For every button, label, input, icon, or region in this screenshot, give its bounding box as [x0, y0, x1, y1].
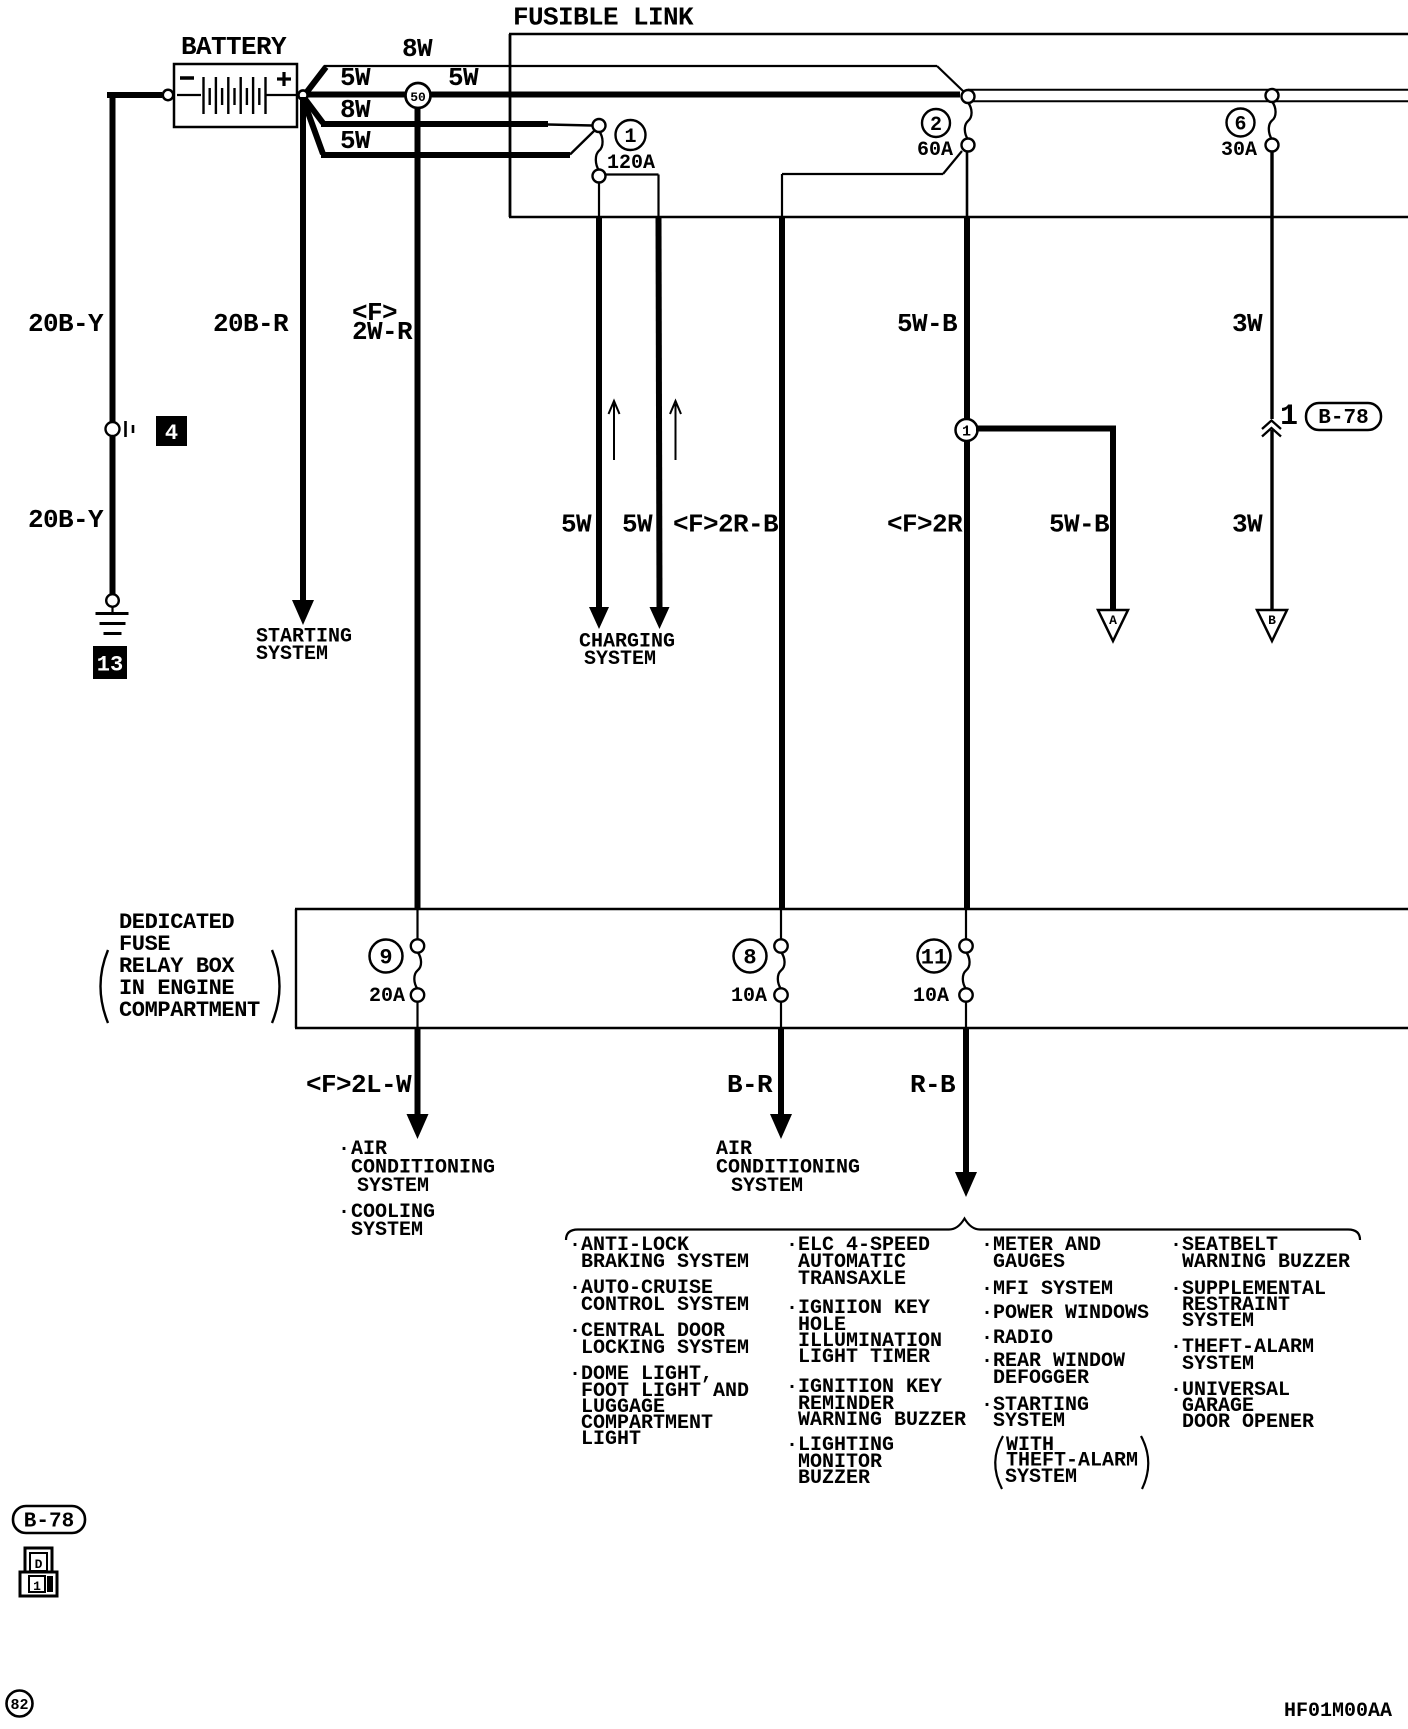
svg-text:5W-B: 5W-B	[897, 309, 958, 339]
page connector chevrons	[1262, 421, 1281, 437]
ground box 13	[93, 646, 127, 679]
svg-text:1: 1	[962, 424, 971, 441]
svg-text:FUSIBLE LINK: FUSIBLE LINK	[513, 3, 694, 33]
svg-text:30A: 30A	[1221, 139, 1257, 162]
fusible link 6 top terminal	[1266, 89, 1279, 102]
svg-text:·: ·	[786, 1297, 798, 1320]
svg-text:·: ·	[981, 1278, 993, 1301]
svg-text:LIGHT TIMER: LIGHT TIMER	[798, 1346, 930, 1369]
svg-text:4: 4	[165, 421, 178, 446]
label 8W	[340, 95, 371, 125]
ground terminal circle	[106, 594, 119, 607]
svg-text:HF01M00AA: HF01M00AA	[1284, 1700, 1392, 1723]
svg-text:<F>2L-W: <F>2L-W	[306, 1070, 412, 1100]
battery minus terminal	[180, 76, 194, 80]
svg-text:8W: 8W	[402, 34, 433, 64]
svg-text:CONTROL SYSTEM: CONTROL SYSTEM	[581, 1294, 749, 1317]
label 20B-Y lower	[28, 505, 104, 535]
svg-text:·: ·	[338, 1138, 350, 1161]
fuse 11 leads	[965, 910, 967, 1028]
fusible link 6 designator	[1227, 109, 1255, 137]
label F 2R	[887, 510, 963, 540]
svg-text:20A: 20A	[369, 985, 405, 1008]
fusible link bus lines	[968, 90, 1408, 102]
svg-text:DEFOGGER: DEFOGGER	[993, 1367, 1089, 1390]
fusible link 2 bottom terminal	[962, 139, 975, 152]
svg-text:·: ·	[786, 1234, 798, 1257]
label 20A of fuse 9	[369, 985, 405, 1008]
svg-text:5W-B: 5W-B	[1049, 510, 1110, 540]
fusible link 1 top terminal	[593, 119, 606, 132]
fusible link 2 bottom lead left	[782, 151, 962, 217]
wire R-B to systems	[963, 1028, 969, 1174]
label 5W	[340, 126, 371, 156]
svg-text:SYSTEM: SYSTEM	[1182, 1310, 1254, 1333]
label R-B	[910, 1070, 956, 1100]
svg-text:SYSTEM: SYSTEM	[256, 643, 328, 666]
current arrow up right	[670, 401, 681, 460]
fuse 8 top terminal	[774, 939, 787, 952]
svg-text:·: ·	[981, 1327, 993, 1350]
fuse 9 top terminal	[411, 939, 424, 952]
label 120A	[607, 152, 655, 175]
svg-text:82: 82	[10, 1697, 28, 1714]
label 5W-B upper	[897, 309, 958, 339]
svg-text:COMPARTMENT: COMPARTMENT	[119, 998, 260, 1023]
label 5W charging left	[561, 510, 592, 540]
svg-text:BUZZER: BUZZER	[798, 1467, 870, 1490]
svg-text:RADIO: RADIO	[993, 1327, 1053, 1350]
wire 5W-B branch to A	[976, 429, 1116, 610]
fuse 8 designator	[734, 940, 767, 973]
svg-text:·: ·	[1170, 1379, 1182, 1402]
page number 82	[7, 1691, 33, 1717]
wire F 2L-W to air conditioning	[415, 1028, 421, 1116]
svg-text:2W-R: 2W-R	[352, 317, 413, 347]
wire battery negative to ground	[107, 92, 162, 595]
wire 2W-R down from connector 50	[415, 107, 421, 910]
svg-text:20B-Y: 20B-Y	[28, 505, 104, 535]
fuse 8 bottom terminal	[774, 988, 787, 1001]
svg-text:A: A	[1109, 613, 1117, 628]
svg-text:D: D	[35, 1557, 43, 1572]
connector pictogram D-1	[20, 1548, 57, 1596]
svg-text:3W: 3W	[1232, 309, 1263, 339]
battery BT1 cells	[177, 77, 296, 114]
fuse 8 leads	[780, 910, 782, 1028]
fuse 9 leads	[416, 910, 418, 1028]
reference B-78 top	[1306, 403, 1381, 430]
wire 5W charging right	[659, 217, 660, 607]
svg-text:·: ·	[786, 1434, 798, 1457]
svg-text:BATTERY: BATTERY	[181, 32, 287, 62]
label starting system	[256, 626, 352, 667]
fuse 9 designator	[370, 940, 403, 973]
connector triangle A	[1098, 610, 1128, 641]
dedicated fuse relay box outline	[295, 909, 1408, 1028]
svg-text:1: 1	[624, 126, 636, 149]
fuse 11 top terminal	[959, 939, 972, 952]
wire 20B-R starting system	[300, 97, 306, 600]
svg-text:·: ·	[569, 1277, 581, 1300]
label 20B-Y upper	[28, 309, 104, 339]
svg-text:50: 50	[410, 90, 426, 105]
label 20B-R	[213, 309, 289, 339]
label 3W lower	[1232, 510, 1263, 540]
battery BT1 box	[174, 64, 297, 127]
svg-text:R-B: R-B	[910, 1070, 956, 1100]
svg-text:SYSTEM: SYSTEM	[357, 1175, 429, 1198]
system list column 3	[981, 1234, 1149, 1433]
connector triangle B	[1257, 610, 1287, 641]
svg-text:SYSTEM: SYSTEM	[1005, 1466, 1077, 1489]
svg-text:DOOR OPENER: DOOR OPENER	[1182, 1411, 1314, 1434]
connector 1 on wire	[956, 419, 978, 441]
svg-text:·: ·	[981, 1302, 993, 1325]
svg-text:POWER WINDOWS: POWER WINDOWS	[993, 1302, 1149, 1325]
battery negative terminal circle	[163, 90, 173, 100]
svg-text:·: ·	[569, 1320, 581, 1343]
dedicated fuse relay box label	[101, 910, 280, 1023]
connector 50 on battery feed	[406, 83, 431, 108]
svg-text:GAUGES: GAUGES	[993, 1251, 1065, 1274]
fuse 9 element	[414, 952, 421, 989]
fuse 11 designator	[918, 940, 951, 973]
system list column 3 theft-alarm note	[995, 1434, 1148, 1489]
svg-text:LOCKING SYSTEM: LOCKING SYSTEM	[581, 1337, 749, 1360]
reference B-78 bottom	[13, 1506, 85, 1534]
svg-text:·: ·	[981, 1350, 993, 1373]
arrow R-B	[955, 1172, 977, 1197]
svg-text:SYSTEM: SYSTEM	[584, 648, 656, 671]
fuse 8 element	[778, 952, 785, 989]
label 10A of fuse 8	[731, 985, 767, 1008]
drawing code HF01M00AA	[1284, 1700, 1392, 1723]
battery plus terminal	[277, 72, 291, 86]
wire 5W low to fuse 1	[321, 131, 595, 156]
fusible link 1 designator	[616, 120, 646, 150]
fusible link 1 leads	[599, 175, 659, 218]
wire 5W charging left	[596, 217, 602, 607]
current arrow up left	[609, 401, 620, 460]
label charging system	[579, 631, 675, 672]
svg-text:·: ·	[981, 1234, 993, 1257]
svg-text:B-R: B-R	[727, 1070, 773, 1100]
svg-text:SYSTEM: SYSTEM	[1182, 1353, 1254, 1376]
label 30A	[1221, 139, 1257, 162]
label F 2L-W	[306, 1070, 412, 1100]
svg-text:10A: 10A	[913, 985, 949, 1008]
svg-text:13: 13	[97, 653, 123, 678]
svg-text:20B-Y: 20B-Y	[28, 309, 104, 339]
label B-R	[727, 1070, 773, 1100]
svg-text:B: B	[1268, 613, 1276, 628]
label air conditioning cooling system left	[338, 1138, 495, 1242]
label air conditioning system mid	[716, 1138, 860, 1198]
label 5W charging right	[622, 510, 653, 540]
battery label	[181, 32, 287, 62]
fusible link label	[513, 3, 694, 33]
svg-text:SYSTEM: SYSTEM	[351, 1219, 423, 1242]
svg-text:BRAKING SYSTEM: BRAKING SYSTEM	[581, 1251, 749, 1274]
fuse 11 element	[963, 952, 970, 989]
svg-text:SYSTEM: SYSTEM	[731, 1175, 803, 1198]
svg-text:9: 9	[379, 946, 392, 971]
svg-text:3W: 3W	[1232, 510, 1263, 540]
arrow B-R	[770, 1114, 792, 1139]
svg-text:SYSTEM: SYSTEM	[993, 1410, 1065, 1433]
svg-text:B-78: B-78	[1318, 407, 1368, 430]
arrow charging right	[650, 607, 670, 629]
svg-text:10A: 10A	[731, 985, 767, 1008]
svg-text:B-78: B-78	[24, 1511, 74, 1534]
svg-text:6: 6	[1234, 114, 1246, 137]
battery positive node	[298, 90, 307, 99]
fusible link 6 element	[1269, 102, 1276, 140]
label pin 1	[1280, 400, 1298, 434]
svg-text:TRANSAXLE: TRANSAXLE	[798, 1268, 906, 1291]
svg-text:20B-R: 20B-R	[213, 309, 289, 339]
fuse 11 bottom terminal	[959, 988, 972, 1001]
wire 8W mid to fuse 1	[321, 124, 592, 126]
svg-text:11: 11	[921, 946, 947, 971]
arrow to starting system	[292, 600, 314, 625]
system list column 2	[786, 1234, 966, 1490]
label F 2W-R	[352, 298, 413, 347]
svg-text:<F>2R: <F>2R	[887, 510, 963, 540]
brace for fuse 11 systems	[566, 1219, 1360, 1241]
svg-text:5W: 5W	[340, 126, 371, 156]
svg-text:120A: 120A	[607, 152, 655, 175]
fusible link 1 bottom terminal	[593, 170, 606, 183]
svg-text:·: ·	[569, 1234, 581, 1257]
fusible link box	[509, 34, 1408, 217]
wire F 2R-B down	[779, 217, 785, 910]
ground G13 symbol	[96, 607, 129, 634]
label 5W right	[448, 63, 479, 93]
fusible link 2 designator	[922, 109, 950, 137]
label 5W left	[340, 63, 371, 93]
label 8W top	[402, 34, 433, 64]
svg-text:5W: 5W	[622, 510, 653, 540]
svg-text:5W: 5W	[340, 63, 371, 93]
svg-text:1: 1	[1280, 400, 1298, 434]
svg-text:2: 2	[930, 114, 942, 137]
fusible link 6 bottom terminal	[1266, 139, 1279, 152]
wire 8W thin top	[324, 66, 963, 91]
fusible link 2 top terminal	[962, 90, 975, 103]
svg-text:5W: 5W	[561, 510, 592, 540]
wire 3W down from fusible link 6	[1270, 151, 1273, 609]
system list column 4	[1170, 1234, 1350, 1434]
svg-text:·: ·	[569, 1363, 581, 1386]
arrow charging left	[589, 607, 609, 629]
svg-text:8W: 8W	[340, 95, 371, 125]
svg-text:WARNING BUZZER: WARNING BUZZER	[1182, 1251, 1350, 1274]
fuse 9 bottom terminal	[411, 988, 424, 1001]
svg-text:·: ·	[786, 1376, 798, 1399]
label 60A	[917, 139, 953, 162]
fusible link 2 element	[965, 103, 972, 140]
svg-text:1: 1	[33, 1579, 41, 1594]
svg-text:·: ·	[1170, 1336, 1182, 1359]
battery positive junction wires fan-out	[302, 67, 960, 154]
svg-text:·: ·	[1170, 1234, 1182, 1257]
svg-text:8: 8	[743, 946, 756, 971]
svg-text:·: ·	[981, 1394, 993, 1417]
fusible link 1 element	[596, 131, 603, 171]
connector box 4	[156, 416, 187, 446]
label F 2R-B	[673, 510, 779, 540]
svg-text:<F>2R-B: <F>2R-B	[673, 510, 779, 540]
arrow F 2L-W	[407, 1114, 429, 1139]
svg-text:·: ·	[338, 1201, 350, 1224]
svg-text:MFI SYSTEM: MFI SYSTEM	[993, 1278, 1113, 1301]
label 5W-B lower	[1049, 510, 1110, 540]
wire B-R to air conditioning	[778, 1028, 784, 1116]
svg-text:LIGHT: LIGHT	[581, 1428, 641, 1451]
label 10A of fuse 11	[913, 985, 949, 1008]
label 3W upper	[1232, 309, 1263, 339]
svg-text:WARNING BUZZER: WARNING BUZZER	[798, 1409, 966, 1432]
svg-text:60A: 60A	[917, 139, 953, 162]
wire F 2R down from fusible link 2	[966, 151, 969, 910]
svg-text:·: ·	[1170, 1278, 1182, 1301]
system list column 1	[569, 1234, 749, 1451]
connector 4 symbol	[106, 421, 134, 437]
svg-text:5W: 5W	[448, 63, 479, 93]
